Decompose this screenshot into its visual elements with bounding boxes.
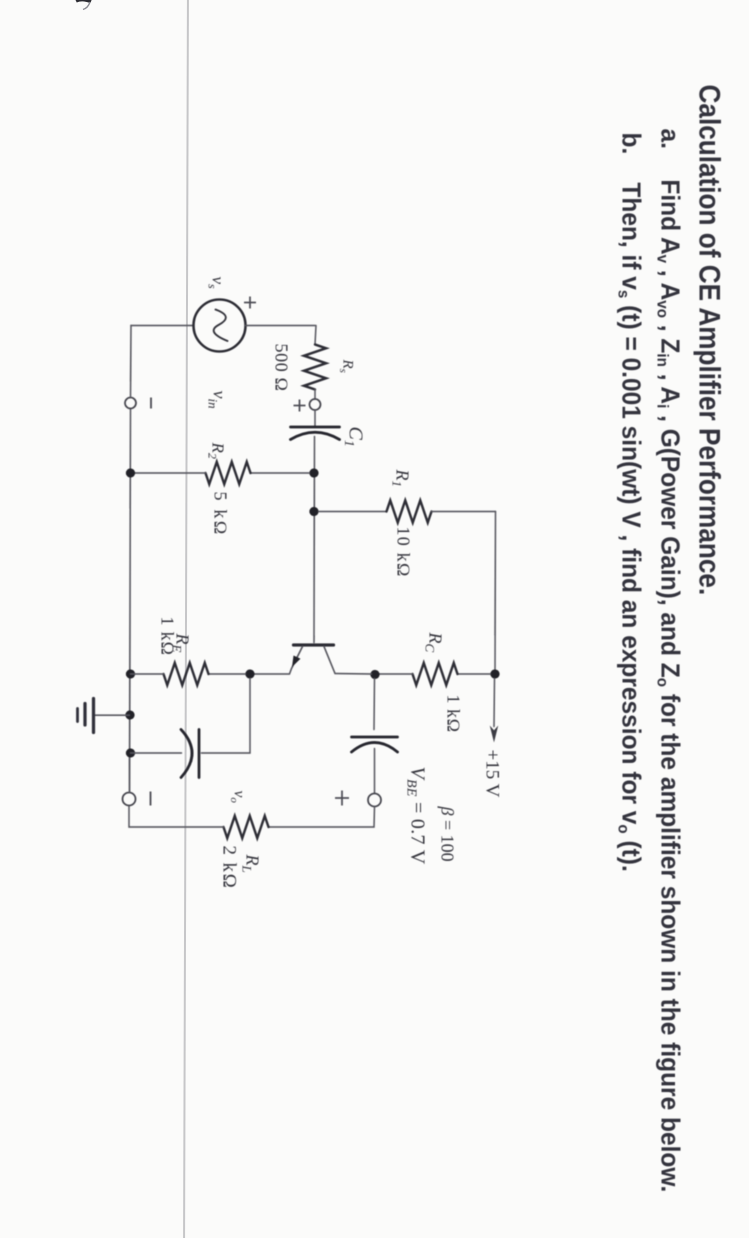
node: open input + terminal [309, 399, 320, 410]
svg-text:R1: R1 [389, 468, 412, 487]
wire: terminal to RL corner [268, 807, 374, 827]
svg-text:vs: vs [205, 276, 227, 289]
resistor R1 10k zigzag vertical [386, 500, 431, 522]
wire: Rs to input + terminal [314, 389, 316, 399]
svg-text:5 kΩ: 5 kΩ [210, 491, 230, 536]
svg-text:10 kΩ: 10 kΩ [393, 526, 413, 577]
node: open vo + terminal [368, 793, 381, 806]
resistor RC 1k zigzag vertical [412, 663, 457, 685]
node: open vo - terminal [122, 792, 135, 805]
wire: RC top [457, 673, 490, 675]
svg-text:500 Ω: 500 Ω [271, 343, 291, 391]
wire: collector node to C2 [373, 678, 376, 729]
resistor RL 2k zigzag vertical [223, 816, 268, 838]
svg-text:C1: C1 [341, 426, 367, 446]
resistor R2 5k zigzag vertical [205, 462, 250, 484]
wire: source bottom lead [131, 324, 194, 326]
svg-text:1 kΩ: 1 kΩ [443, 694, 463, 732]
resistor Rs 500ohm zigzag [304, 344, 326, 389]
wire: RE bottom to rail [130, 673, 163, 675]
junction dot: top rail / RC [490, 669, 499, 678]
label + (vin) [293, 399, 305, 411]
wire: terminal to C1 [314, 410, 316, 425]
label + (vo) [335, 790, 349, 805]
wire: RL to bottom corner to vo - terminal [129, 806, 224, 827]
pen mark top left [72, 0, 94, 13]
wire: +15V top rail [494, 511, 497, 674]
label + (source) [244, 296, 256, 308]
svg-text:RL: RL [239, 853, 262, 872]
label - (vo) [149, 791, 151, 805]
wire: bottom rail left portion [129, 325, 132, 397]
svg-text:2 kΩ: 2 kΩ [218, 845, 239, 889]
wire: C2 to vo + terminal [373, 748, 375, 793]
node: open vin - terminal [125, 397, 136, 408]
resistor RE 1k zigzag vertical [163, 663, 208, 685]
svg-text:Rs: Rs [337, 358, 356, 372]
junction dot: emitter node [245, 669, 254, 678]
svg-text:vin: vin [205, 390, 229, 408]
wire: bottom rail right portion [128, 758, 130, 792]
wire: R1 to top rail corner [431, 510, 495, 512]
svg-text:VBE = 0.7 V: VBE = 0.7 V [403, 766, 428, 864]
wire: rail to +15V arrow [493, 678, 496, 726]
svg-text:β = 100: β = 100 [437, 805, 457, 861]
transistor collector diagonal [324, 646, 372, 674]
junction dot: node C1/R2 [309, 468, 318, 477]
svg-text:R2: R2 [205, 441, 227, 458]
transistor emitter diagonal [254, 646, 302, 674]
junction dots on bottom rail [125, 468, 134, 477]
scanner fold line [183, 0, 189, 1238]
wire: R1 branch up [318, 510, 386, 512]
svg-text:1 kΩ: 1 kΩ [157, 616, 177, 656]
label - (vin) [150, 397, 152, 408]
wire: RE top [208, 673, 245, 675]
wire: bottom rail main [129, 409, 130, 792]
sine wave inside source [213, 309, 227, 341]
wire: top input wire from source corner to Rs [315, 325, 316, 344]
wire: R2 branch down [250, 472, 309, 474]
wire: CE bottom to rail [130, 752, 181, 754]
junction dot: node R1/base [309, 506, 318, 515]
svg-text:vo: vo [228, 790, 248, 803]
wire: R2 to bottom rail [131, 472, 205, 474]
ground bars [91, 698, 94, 732]
wire: RC bottom to collector node [378, 673, 412, 675]
junction dot: collector node [370, 669, 379, 678]
capacitor CE plates [197, 729, 200, 777]
ground stub [94, 714, 129, 716]
wire: C1 to base (through two junctions) [313, 436, 316, 642]
+15V arrowhead [489, 725, 497, 742]
svg-text:RC: RC [422, 631, 445, 652]
capacitor C1 plates [290, 425, 339, 428]
transistor emitter arrowhead [292, 655, 301, 667]
wire: emitter node to CE [201, 678, 250, 753]
transistor Q1: base bar [293, 643, 333, 646]
capacitor C2 plates [351, 735, 397, 738]
wire: source top lead [245, 324, 315, 326]
svg-text:+15 V: +15 V [481, 749, 502, 797]
source vs circle [193, 299, 245, 351]
